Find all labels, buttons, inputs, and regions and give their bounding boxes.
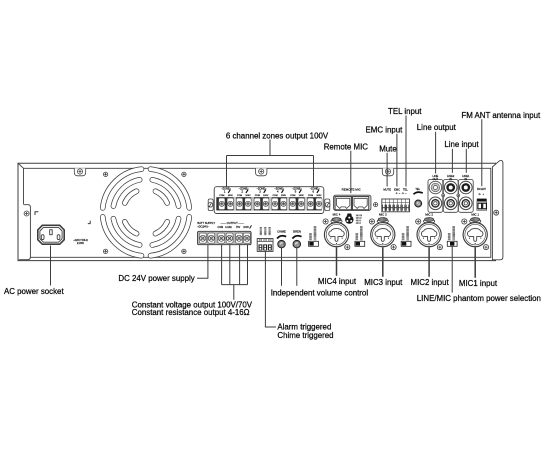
FM ANT terminal [477,199,487,211]
zone terminal strip [216,197,322,210]
MIC 1 plate screw top-left [462,219,467,224]
MIC 2 XLR combo jack [417,223,441,247]
LINE2 IN RCA column [443,174,458,212]
trigger terminal vertical labels [260,227,262,235]
svg-text:REMOTE MIC: REMOTE MIC [342,188,362,192]
svg-text:Line output: Line output [417,123,457,132]
chassis front face [24,168,491,257]
LINE OUT RCA column [428,174,443,212]
MIC 3 plate screw bottom-right [391,245,396,250]
callout line: FM ANT [481,119,483,186]
svg-text:Line input: Line input [444,140,479,149]
svg-text:100V: 100V [281,195,287,197]
MIC 2 line/mic phantom slide switch [401,241,411,246]
svg-text:FM ANT antenna input: FM ANT antenna input [461,111,541,120]
svg-text:G · + · G · +: G · + · G · + [396,193,408,195]
callout line: LINE2 [451,149,453,173]
svg-text:COM: COM [272,195,277,197]
svg-text:100V: 100V [245,195,251,197]
svg-text:MIC 3: MIC 3 [379,213,387,217]
MIC 3 line/mic phantom switch labels [355,233,358,240]
battery/output screw terminal [236,233,243,243]
svg-text:70V: 70V [236,226,241,229]
MIC 2 gain knob [424,218,435,224]
callout line: MIC3 [382,247,384,277]
TEL knob [414,188,423,207]
svg-text:MIC 4: MIC 4 [333,213,341,217]
callout line: TEL [405,116,407,187]
mute/emc/tel terminal block [382,199,410,212]
MIC 3 XLR combo jack [371,223,395,247]
svg-text:CHIME: CHIME [277,229,286,233]
fan grille vents [103,169,190,256]
svg-text:IN: IN [449,177,452,181]
MIC 2 plate screw top-left [416,219,421,224]
svg-text:IN: IN [465,177,468,181]
svg-text:Constant resistance output 4-1: Constant resistance output 4-16Ω [132,308,250,317]
svg-text:TEL: TEL [403,187,408,191]
left ear screw [24,211,29,216]
svg-text:COM: COM [308,195,313,197]
svg-text:—— OUTPUT ——: —— OUTPUT —— [221,221,245,225]
svg-text:100V: 100V [299,195,305,197]
callout line: Line output [435,132,437,174]
callout line: MIC1 [474,247,476,278]
svg-text:AC power socket: AC power socket [4,287,64,296]
svg-text:COM: COM [219,195,224,197]
battery/output screw terminal [243,233,250,243]
svg-text:Remote MIC: Remote MIC [324,142,369,151]
svg-text:210W: 210W [77,241,84,245]
svg-text:COM: COM [255,195,260,197]
MIC 4 plate screw top-left [323,219,328,224]
remote mic RJ45 jacks [334,195,371,210]
MIC 1 gain knob [470,218,481,224]
svg-text:6 channel zones output 100V: 6 channel zones output 100V [226,131,329,140]
callout line: EMC [396,134,398,187]
screw between RCA columns [442,194,445,197]
panel screw [103,172,107,176]
svg-text:MIC 2: MIC 2 [425,213,433,217]
svg-text:100V: 100V [263,195,269,197]
svg-text:MIC4 input: MIC4 input [318,277,357,286]
MIC 4 plate screw bottom-right [345,245,350,250]
chassis top-left bevel [18,163,24,168]
panel screw [182,172,186,176]
top notch tab 1 [74,168,85,176]
svg-text:COM: COM [290,195,295,197]
SIREN level knob [292,229,301,247]
callout lines: output terminals [222,245,248,300]
MIC 3 line/mic phantom slide switch [355,241,365,246]
svg-text:MUTE: MUTE [383,187,391,191]
MIC 4 line/mic phantom switch labels [309,233,312,240]
callout line: LINE/MIC switch [451,247,453,293]
MIC 1 line/mic phantom switch labels [448,233,451,240]
MIC 4 XLR combo jack [324,223,348,247]
svg-text:COM: COM [218,226,224,229]
svg-text:DC 24V power supply: DC 24V power supply [118,274,194,283]
battery/output screw terminal [218,233,225,243]
corner mark right of socket [88,221,90,224]
top notch tab 3 [382,168,393,176]
corner mark near socket [35,212,38,215]
panel screw [103,249,107,253]
callout line: MIC4 [336,247,338,276]
callout line: alarm/chime trigger [265,251,276,327]
MIC 2 line/mic phantom switch labels [402,233,405,240]
callout line: AC socket [50,246,52,286]
callout line: SIREN knob [296,248,298,286]
battery/output screw terminal [199,233,206,243]
svg-text:COM: COM [237,195,242,197]
callout line: LINE1 [465,149,467,173]
left mounting ear [19,204,31,260]
svg-text:EMC input: EMC input [366,125,404,134]
BATT SUPPLY / OUTPUT terminal block [198,231,252,244]
CHIME level knob [277,229,286,247]
svg-text:100V: 100V [316,195,322,197]
alarm/chime trigger terminal block [257,239,273,252]
callout line: DC 24V [197,245,208,278]
chassis outer outline [18,163,496,260]
zone block right screw [325,203,330,208]
MIC 2 plate screw bottom-right [437,245,442,250]
svg-text:100V: 100V [228,195,234,197]
LINE1 IN RCA column [458,174,473,212]
svg-text:TEL: TEL [415,188,420,191]
svg-text:MIC1 input: MIC1 input [459,279,498,288]
6-zone speaker terminal block [208,199,213,211]
battery/output screw terminal [226,233,233,243]
callout bracket: 6 channel zones [227,140,314,187]
zone block left screw [208,203,213,208]
MIC 1 line/mic phantom slide switch [447,241,457,246]
top notch tab 2 [256,168,267,176]
svg-text:4-16Ω: 4-16Ω [225,226,232,229]
svg-text:MIC 1: MIC 1 [471,213,479,217]
svg-text:LINE/MIC phantom power selecti: LINE/MIC phantom power selection [417,294,541,303]
MIC 4 gain knob [331,218,342,224]
AC power socket (IEC inlet) [38,225,64,244]
MIC 4 line/mic phantom slide switch [309,241,319,246]
screw between RCA columns 2 [457,194,460,197]
svg-text:Mute: Mute [379,144,397,153]
callout line: Remote MIC [350,151,352,193]
battery/output screw terminal [208,233,215,243]
svg-text:+DC(24V)–: +DC(24V)– [197,227,209,229]
MIC 3 plate screw top-left [369,219,374,224]
svg-text:OUT: OUT [433,177,439,181]
svg-text:BATT SUPPLY: BATT SUPPLY [197,221,215,225]
svg-text:MIC2 input: MIC2 input [411,278,450,287]
svg-text:100V: 100V [243,226,249,229]
callout line: Mute [386,153,388,187]
svg-text:G +: G + [479,193,485,196]
right side wing [492,160,503,259]
callout line: MIC2 [428,247,430,277]
svg-text:MIC3 input: MIC3 input [364,278,403,287]
svg-text:Independent volume control: Independent volume control [271,289,369,298]
MIC 1 XLR combo jack [463,223,487,247]
remote mic male XLR icon [345,214,353,224]
filter text block [356,214,362,216]
svg-text:SIREN: SIREN [293,229,301,233]
panel screw [182,249,186,253]
svg-text:EMC: EMC [394,187,400,191]
screw right of RJ45 [374,203,378,207]
svg-text:TEL input: TEL input [388,107,422,116]
right wing screw [494,210,499,215]
svg-text:Chime triggered: Chime triggered [277,331,333,340]
svg-text:FM ANT: FM ANT [477,188,486,191]
MIC 1 plate screw bottom-right [483,245,488,250]
callout line: CHIME knob [281,248,283,286]
MIC 3 gain knob [377,218,388,224]
